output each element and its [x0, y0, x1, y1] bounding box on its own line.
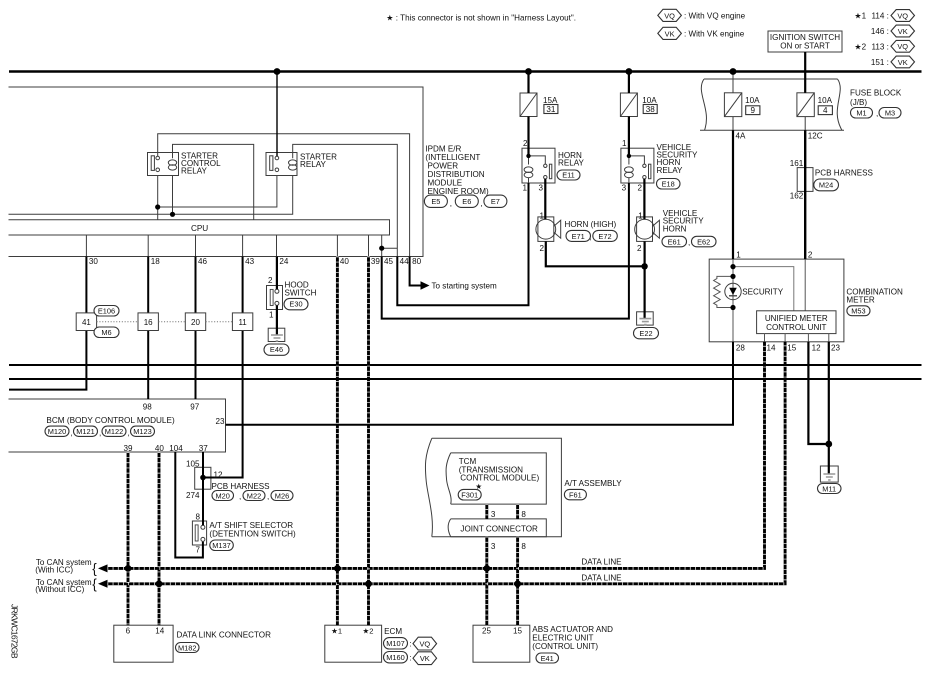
svg-text:E11: E11	[562, 171, 575, 180]
svg-text:HORN (HIGH): HORN (HIGH)	[565, 220, 617, 229]
svg-text:104: 104	[169, 444, 183, 453]
svg-text:2: 2	[268, 276, 273, 285]
svg-text:98: 98	[143, 402, 153, 411]
svg-text:{: {	[92, 576, 97, 591]
svg-text:VK: VK	[420, 654, 430, 663]
svg-text:To starting system: To starting system	[432, 281, 497, 290]
svg-text:★2: ★2	[854, 42, 866, 51]
svg-text:15: 15	[787, 344, 797, 353]
svg-text:113 :: 113 :	[871, 42, 888, 51]
svg-text:(Without ICC): (Without ICC)	[35, 585, 84, 594]
svg-text:M6: M6	[101, 328, 111, 337]
svg-text:E61: E61	[668, 237, 681, 246]
svg-text:M1: M1	[856, 109, 866, 118]
svg-text:6: 6	[126, 627, 131, 636]
svg-text:(With ICC): (With ICC)	[35, 565, 73, 574]
svg-text:M182: M182	[178, 643, 197, 652]
svg-text:CONTROL MODULE): CONTROL MODULE)	[460, 474, 539, 483]
svg-text:VQ: VQ	[419, 640, 430, 649]
svg-text:E71: E71	[572, 232, 585, 241]
svg-text:20: 20	[191, 318, 200, 327]
svg-text:8: 8	[521, 542, 526, 551]
svg-text:★1: ★1	[854, 12, 866, 21]
svg-text:IGNITION SWITCH: IGNITION SWITCH	[770, 33, 840, 42]
svg-text:E7: E7	[491, 197, 500, 206]
svg-text:3: 3	[622, 184, 627, 193]
svg-text:DATA LINE: DATA LINE	[581, 557, 622, 566]
svg-text:RELAY: RELAY	[300, 160, 327, 169]
svg-text:2: 2	[637, 244, 642, 253]
svg-text:24: 24	[279, 257, 289, 266]
svg-text:1: 1	[269, 311, 274, 320]
svg-text:VK: VK	[898, 58, 908, 67]
svg-text:43: 43	[245, 257, 255, 266]
svg-text:DATA LINK CONNECTOR: DATA LINK CONNECTOR	[177, 631, 272, 640]
svg-text:CPU: CPU	[191, 224, 208, 233]
svg-text:146 :: 146 :	[871, 27, 889, 36]
svg-text:M11: M11	[822, 484, 836, 493]
svg-text:30: 30	[89, 257, 99, 266]
svg-text:10A: 10A	[642, 96, 657, 105]
svg-text:E46: E46	[270, 345, 283, 354]
svg-text:E18: E18	[662, 179, 675, 188]
svg-text:M121: M121	[76, 427, 95, 436]
svg-text:,: ,	[239, 492, 241, 501]
svg-text:DATA LINE: DATA LINE	[581, 574, 622, 583]
svg-text:PCB HARNESS: PCB HARNESS	[815, 169, 874, 178]
svg-text:M122: M122	[105, 427, 124, 436]
svg-text:1: 1	[539, 211, 544, 220]
svg-text:E30: E30	[289, 300, 302, 309]
svg-text:18: 18	[151, 257, 161, 266]
svg-text:E41: E41	[541, 654, 554, 663]
svg-text:40: 40	[340, 257, 350, 266]
svg-text:M120: M120	[48, 427, 67, 436]
svg-text:M53: M53	[851, 306, 865, 315]
svg-text:,: ,	[450, 199, 452, 208]
svg-text:PCB HARNESS: PCB HARNESS	[212, 482, 271, 491]
svg-text:16: 16	[144, 318, 153, 327]
svg-text:M107: M107	[386, 639, 405, 648]
svg-text:: With VQ engine: : With VQ engine	[684, 12, 746, 21]
svg-text:M160: M160	[386, 653, 405, 662]
svg-text:15A: 15A	[543, 96, 558, 105]
svg-text:E106: E106	[98, 306, 115, 315]
svg-text:VQ: VQ	[897, 11, 908, 20]
svg-text:161: 161	[790, 159, 804, 168]
svg-text:12C: 12C	[808, 132, 823, 141]
svg-text:31: 31	[546, 105, 556, 114]
svg-text:11: 11	[238, 318, 247, 327]
svg-text:10A: 10A	[745, 96, 760, 105]
svg-text:CONTROL UNIT: CONTROL UNIT	[766, 323, 826, 332]
svg-text:ENGINE ROOM): ENGINE ROOM)	[428, 187, 489, 196]
svg-text:JRKWC1672GB: JRKWC1672GB	[10, 604, 20, 659]
svg-text:★ : This connector is not show: ★ : This connector is not shown in "Harn…	[386, 14, 576, 23]
svg-text:14: 14	[767, 344, 777, 353]
svg-text:RELAY: RELAY	[181, 167, 208, 176]
svg-text:45: 45	[384, 257, 394, 266]
svg-text:80: 80	[412, 257, 422, 266]
svg-text:M3: M3	[885, 109, 895, 118]
svg-text:M26: M26	[275, 491, 289, 500]
svg-text:28: 28	[736, 344, 746, 353]
svg-text:8: 8	[195, 513, 200, 522]
svg-text:1: 1	[522, 184, 527, 193]
svg-text:2: 2	[637, 184, 642, 193]
svg-text:46: 46	[198, 257, 208, 266]
svg-text:BCM (BODY CONTROL MODULE): BCM (BODY CONTROL MODULE)	[46, 416, 175, 425]
svg-text:ECM: ECM	[384, 627, 402, 636]
svg-text:E62: E62	[697, 237, 710, 246]
svg-text:{: {	[92, 561, 97, 576]
svg-text:162: 162	[790, 192, 804, 201]
svg-text:151 :: 151 :	[871, 58, 889, 67]
svg-text:F301: F301	[461, 491, 478, 500]
svg-text:VQ: VQ	[897, 42, 908, 51]
svg-text:105: 105	[186, 460, 200, 469]
svg-text:3: 3	[491, 542, 496, 551]
svg-text:UNIFIED METER: UNIFIED METER	[765, 314, 828, 323]
svg-text:1: 1	[622, 139, 627, 148]
svg-text:4A: 4A	[736, 132, 747, 141]
svg-text:38: 38	[646, 105, 656, 114]
svg-text:44: 44	[400, 257, 410, 266]
svg-text:M123: M123	[133, 427, 152, 436]
svg-text:4: 4	[823, 106, 828, 115]
svg-text:METER: METER	[846, 295, 874, 304]
svg-text:JOINT CONNECTOR: JOINT CONNECTOR	[460, 524, 538, 533]
svg-text:10A: 10A	[818, 96, 833, 105]
svg-text:15: 15	[513, 627, 523, 636]
svg-text:3: 3	[491, 510, 496, 519]
svg-text:2: 2	[808, 250, 813, 259]
svg-text:,: ,	[688, 238, 690, 247]
svg-text:25: 25	[482, 627, 492, 636]
svg-text:1: 1	[736, 250, 741, 259]
svg-text:(J/B): (J/B)	[850, 98, 867, 107]
svg-text:,: ,	[876, 109, 878, 118]
svg-text:23: 23	[831, 344, 841, 353]
svg-text:40: 40	[155, 444, 165, 453]
svg-text:E72: E72	[598, 232, 611, 241]
svg-text:RELAY: RELAY	[558, 159, 585, 168]
svg-text:274: 274	[186, 491, 200, 500]
svg-text:(DETENTION SWITCH): (DETENTION SWITCH)	[209, 529, 296, 538]
svg-text:★2: ★2	[362, 627, 373, 636]
svg-text:M22: M22	[247, 491, 261, 500]
svg-text:97: 97	[190, 402, 200, 411]
svg-text:E22: E22	[639, 329, 652, 338]
svg-text:114 :: 114 :	[871, 12, 888, 21]
svg-text:★: ★	[475, 482, 482, 491]
svg-text:,: ,	[590, 233, 592, 242]
svg-text:HORN: HORN	[663, 224, 687, 233]
svg-text:RELAY: RELAY	[657, 166, 684, 175]
svg-text:,: ,	[481, 199, 483, 208]
svg-text::: :	[409, 653, 411, 662]
svg-text:23: 23	[215, 417, 225, 426]
svg-text:(CONTROL UNIT): (CONTROL UNIT)	[532, 642, 598, 651]
svg-text:2: 2	[539, 244, 544, 253]
svg-text:,: ,	[128, 429, 130, 438]
svg-text:,: ,	[267, 492, 269, 501]
svg-text:E5: E5	[431, 197, 440, 206]
svg-text:3: 3	[538, 184, 543, 193]
svg-text:12: 12	[812, 344, 822, 353]
svg-text:VK: VK	[898, 27, 908, 36]
svg-text:,: ,	[71, 429, 73, 438]
svg-text:12: 12	[214, 470, 224, 479]
svg-text:14: 14	[155, 627, 165, 636]
svg-text:F61: F61	[569, 490, 582, 499]
svg-text:: With VK engine: : With VK engine	[684, 30, 745, 39]
svg-text:,: ,	[99, 429, 101, 438]
svg-text:VK: VK	[665, 29, 675, 38]
svg-text:M137: M137	[212, 541, 231, 550]
svg-text:SWITCH: SWITCH	[285, 288, 317, 297]
svg-text:SECURITY: SECURITY	[742, 287, 784, 296]
svg-text:8: 8	[521, 510, 526, 519]
svg-text:M20: M20	[216, 491, 230, 500]
svg-text:7: 7	[195, 546, 200, 555]
svg-text::: :	[409, 639, 411, 648]
svg-text:E6: E6	[462, 197, 471, 206]
svg-text:★1: ★1	[331, 627, 342, 636]
svg-text:FUSE BLOCK: FUSE BLOCK	[850, 89, 902, 98]
svg-text:ON or START: ON or START	[780, 42, 830, 51]
svg-text:VQ: VQ	[664, 11, 675, 20]
svg-text:1: 1	[638, 211, 643, 220]
svg-text:37: 37	[199, 444, 209, 453]
svg-text:2: 2	[523, 139, 528, 148]
svg-text:9: 9	[751, 106, 756, 115]
svg-text:39: 39	[371, 257, 381, 266]
svg-text:39: 39	[123, 444, 133, 453]
svg-text:41: 41	[82, 318, 91, 327]
svg-text:M24: M24	[819, 181, 833, 190]
svg-text:A/T ASSEMBLY: A/T ASSEMBLY	[564, 479, 622, 488]
